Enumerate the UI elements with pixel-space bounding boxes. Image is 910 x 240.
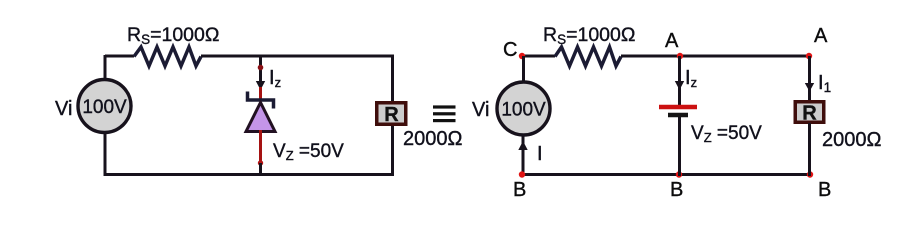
zener diode cathode bar: [248, 92, 274, 109]
wire: top wire right segment (resistor RS to top-right corner): [201, 55, 393, 58]
wire: into load resistor R: [808, 88, 811, 101]
svg-text:C: C: [503, 39, 517, 61]
resistor R (load) box right: [795, 102, 824, 123]
wire: battery branch upper segment: [678, 56, 681, 84]
svg-text:2000Ω: 2000Ω: [822, 129, 881, 151]
wire: top wire node A to node A (right): [680, 55, 810, 58]
current arrow IZ (down): [256, 81, 265, 90]
svg-text:100V: 100V: [501, 100, 546, 121]
wire: load branch upper segment: [808, 56, 811, 86]
svg-text:I: I: [537, 143, 543, 165]
current arrow I1 (down): [805, 83, 814, 92]
battery VZ positive plate (red): [659, 105, 697, 110]
wire: right vertical above resistor R: [391, 55, 394, 102]
wire: battery branch to positive plate: [678, 87, 681, 105]
voltage source Vi (100V): [78, 80, 131, 133]
resistor R (load) box: [377, 103, 406, 125]
current arrow IZ (down, right circuit): [675, 81, 684, 90]
node A (right) dot: [806, 53, 812, 59]
resistor RS zigzag: [134, 47, 201, 66]
wire: bottom wire (right circuit): [522, 173, 810, 176]
svg-text:VZ =50V: VZ =50V: [273, 141, 344, 163]
svg-text:B: B: [513, 179, 526, 201]
wire: top wire resistor RS to node A (middle): [621, 55, 680, 58]
wire: stub from C down to source: [522, 56, 525, 82]
node B (middle) dot: [676, 171, 682, 177]
wire: black stub to bottom wire: [259, 163, 262, 176]
svg-text:B: B: [818, 179, 831, 201]
voltage source Vi (100V) right: [497, 82, 550, 135]
node dot below zener: [258, 160, 263, 165]
svg-text:RS=1000Ω: RS=1000Ω: [127, 24, 219, 47]
svg-text:Vi: Vi: [55, 98, 72, 120]
wire: top wire left segment (source to resistor RS): [105, 55, 134, 58]
wire: left vertical below source (right circuit): [522, 135, 525, 177]
svg-text:2000Ω: 2000Ω: [403, 128, 462, 150]
svg-text:B: B: [670, 179, 683, 201]
svg-text:RS=1000Ω: RS=1000Ω: [543, 24, 635, 47]
wire: load branch lower segment: [808, 123, 811, 176]
wire: zener branch stub from top wire: [259, 56, 262, 84]
node A (middle) dot: [677, 53, 683, 59]
wire: left vertical above source: [104, 55, 107, 80]
resistor RS zigzag (right): [555, 47, 621, 66]
battery VZ negative plate: [668, 113, 688, 118]
svg-text:A: A: [665, 30, 679, 52]
svg-text:A: A: [814, 25, 828, 47]
svg-text:Vi: Vi: [472, 99, 489, 121]
wire: right vertical below resistor R: [391, 126, 394, 176]
svg-text:R: R: [802, 103, 817, 125]
svg-text:R: R: [384, 104, 399, 126]
wire: bottom wire: [105, 173, 393, 176]
wire: left vertical below source: [104, 133, 107, 177]
svg-text:100V: 100V: [82, 97, 127, 118]
wire: red segment above zener: [259, 87, 262, 100]
node C dot: [519, 53, 525, 59]
svg-text:VZ =50V: VZ =50V: [691, 123, 762, 145]
wire: top wire C to resistor RS: [522, 55, 555, 58]
wire: red segment below zener: [259, 130, 262, 163]
junction dot on zener branch: [258, 65, 264, 71]
equivalence symbol: [433, 105, 456, 122]
wire: battery branch lower segment: [678, 117, 681, 176]
node B (right) dot: [807, 171, 813, 177]
node B (left) dot: [519, 171, 525, 177]
current arrow I (up): [518, 141, 527, 150]
zener diode triangle: [246, 103, 275, 132]
